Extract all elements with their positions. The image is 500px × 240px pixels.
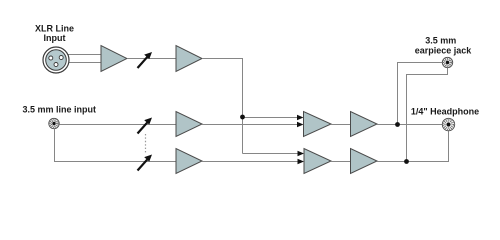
connector J1 XLR line input (43, 47, 69, 73)
connector J3 3.5mm earpiece jack (442, 57, 452, 67)
connector J4 1/4 inch headphone jack (442, 118, 454, 130)
svg-text:3.5 mm line input: 3.5 mm line input (23, 104, 97, 114)
arrowhead into U6 lower input (298, 159, 305, 165)
wire U7 output to 1/4 inch jack (377, 124, 443, 126)
node right channel junction (404, 159, 409, 164)
ganged link dotted line VR2 (145, 134, 147, 154)
svg-text:3.5 mm: 3.5 mm (425, 36, 456, 46)
svg-text:Input: Input (44, 33, 66, 43)
amplifier U8 (right output amp) (351, 149, 378, 174)
wire J2 left channel to U3 (59, 124, 176, 126)
wire U2 output right then down (XLR bus) (202, 59, 243, 154)
node left channel junction (395, 122, 400, 127)
wire left channel up to earpiece jack (398, 63, 443, 125)
svg-text:1/4" Headphone: 1/4" Headphone (411, 107, 479, 117)
wire U3 output to U5 input (202, 124, 299, 126)
wire right channel up to earpiece jack (407, 68, 448, 162)
wire J2 right channel down and to U4 (55, 129, 177, 162)
amplifier U4 (right line amp) (176, 149, 202, 174)
svg-text:earpiece jack: earpiece jack (415, 46, 473, 56)
arrowhead into U5 lower input (297, 122, 304, 128)
amplifier U3 (left line amp) (176, 112, 202, 137)
wire U5 to U7 (331, 124, 351, 126)
wire U6 to U8 (331, 161, 351, 163)
amplifier U1 (XLR preamp) (101, 46, 127, 72)
node XLR bus junction (240, 115, 245, 120)
label XLR Line Input (35, 23, 74, 43)
wire XLR balanced pair to U1 (66, 55, 101, 63)
wire XLR bus branch to U5 input (243, 117, 299, 119)
wire U8 output to 1/4 inch jack sleeve (377, 131, 449, 162)
wire U1 output to U2 (127, 58, 176, 60)
variable gain arrow VR1 (XLR level) (138, 52, 153, 68)
wire U4 output to U6 input (202, 161, 299, 163)
connector J2 3.5mm line input (49, 118, 59, 128)
amplifier U2 (176, 46, 202, 72)
variable gain arrow VR2a (left level) (138, 118, 153, 134)
label 3.5 mm earpiece jack (415, 36, 473, 56)
variable gain arrow VR2b (right level) (138, 155, 153, 171)
amplifier U5 (left mixer) (304, 112, 332, 137)
svg-text:XLR Line: XLR Line (35, 23, 74, 33)
wire XLR bus branch to U6 input (243, 153, 299, 155)
amplifier U7 (left output amp) (351, 112, 378, 137)
arrowhead into U6 (298, 151, 305, 157)
arrowhead into U5 (297, 115, 304, 121)
amplifier U6 (right mixer) (304, 149, 331, 174)
